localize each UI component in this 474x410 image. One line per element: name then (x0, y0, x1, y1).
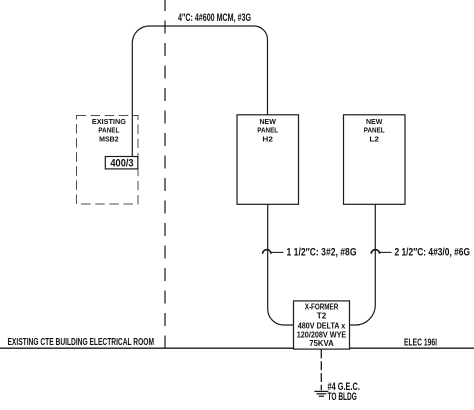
svg-text:4″C: 4#600 MCM, #3G: 4″C: 4#600 MCM, #3G (178, 12, 251, 24)
transformer T2 box (294, 301, 350, 349)
wire panel H2 to transformer T2 primary (268, 204, 294, 325)
svg-text:EXISTING CTE BUILDING ELECTRIC: EXISTING CTE BUILDING ELECTRICAL ROOM (8, 337, 155, 348)
panel MSB2 label (92, 117, 126, 143)
svg-text:PANEL: PANEL (98, 126, 119, 135)
wall line of electrical room (0, 347, 474, 349)
wire transformer T2 secondary to panel L2 (350, 204, 376, 325)
leader arc mark on L2 feeder wire (371, 250, 379, 254)
svg-text:120/208V WYE: 120/208V WYE (297, 330, 347, 339)
svg-text:MSB2: MSB2 (99, 134, 119, 143)
svg-text:400/3: 400/3 (110, 158, 133, 170)
leader arc mark on H2 feeder wire (263, 250, 271, 254)
svg-text:L2: L2 (369, 135, 379, 144)
svg-text:2 1/2″C: 4#3/0, #6G: 2 1/2″C: 4#3/0, #6G (395, 247, 471, 259)
svg-text:EXISTING: EXISTING (92, 117, 126, 126)
leader line to H2 feeder label (270, 251, 284, 253)
breaker 400/3 in MSB2 (105, 157, 138, 169)
ground symbol (314, 391, 328, 396)
transformer T2 label (297, 303, 347, 349)
panel H2 (new) (237, 115, 299, 205)
svg-text:PANEL: PANEL (257, 126, 278, 135)
svg-text:T2: T2 (317, 312, 327, 321)
panel MSB2 (existing, dashed outline) (77, 116, 139, 205)
svg-text:TO BLDG: TO BLDG (328, 391, 357, 403)
wire GEC from transformer T2 (dashed) (320, 349, 322, 390)
svg-text:NEW: NEW (366, 117, 383, 126)
panel H2 label (257, 117, 278, 144)
panel L2 label (364, 117, 385, 144)
svg-text:NEW: NEW (259, 117, 276, 126)
node demarcation dashed line (existing/new) (164, 0, 166, 348)
panel L2 (new) (344, 115, 406, 205)
GEC label #4 G.E.C. TO BLDG (328, 381, 360, 403)
svg-text:75KVA: 75KVA (309, 339, 334, 348)
svg-text:480V DELTA x: 480V DELTA x (298, 322, 346, 331)
svg-text:X-FORMER: X-FORMER (305, 303, 339, 312)
svg-text:1 1/2″C: 3#2, #8G: 1 1/2″C: 3#2, #8G (287, 247, 357, 259)
svg-text:PANEL: PANEL (364, 126, 385, 135)
svg-text:H2: H2 (262, 135, 273, 144)
svg-text:ELEC 196I: ELEC 196I (404, 337, 437, 348)
wire feeder 480V from MSB2 to panel H2 (132, 26, 267, 157)
leader line to L2 feeder label (379, 251, 392, 253)
